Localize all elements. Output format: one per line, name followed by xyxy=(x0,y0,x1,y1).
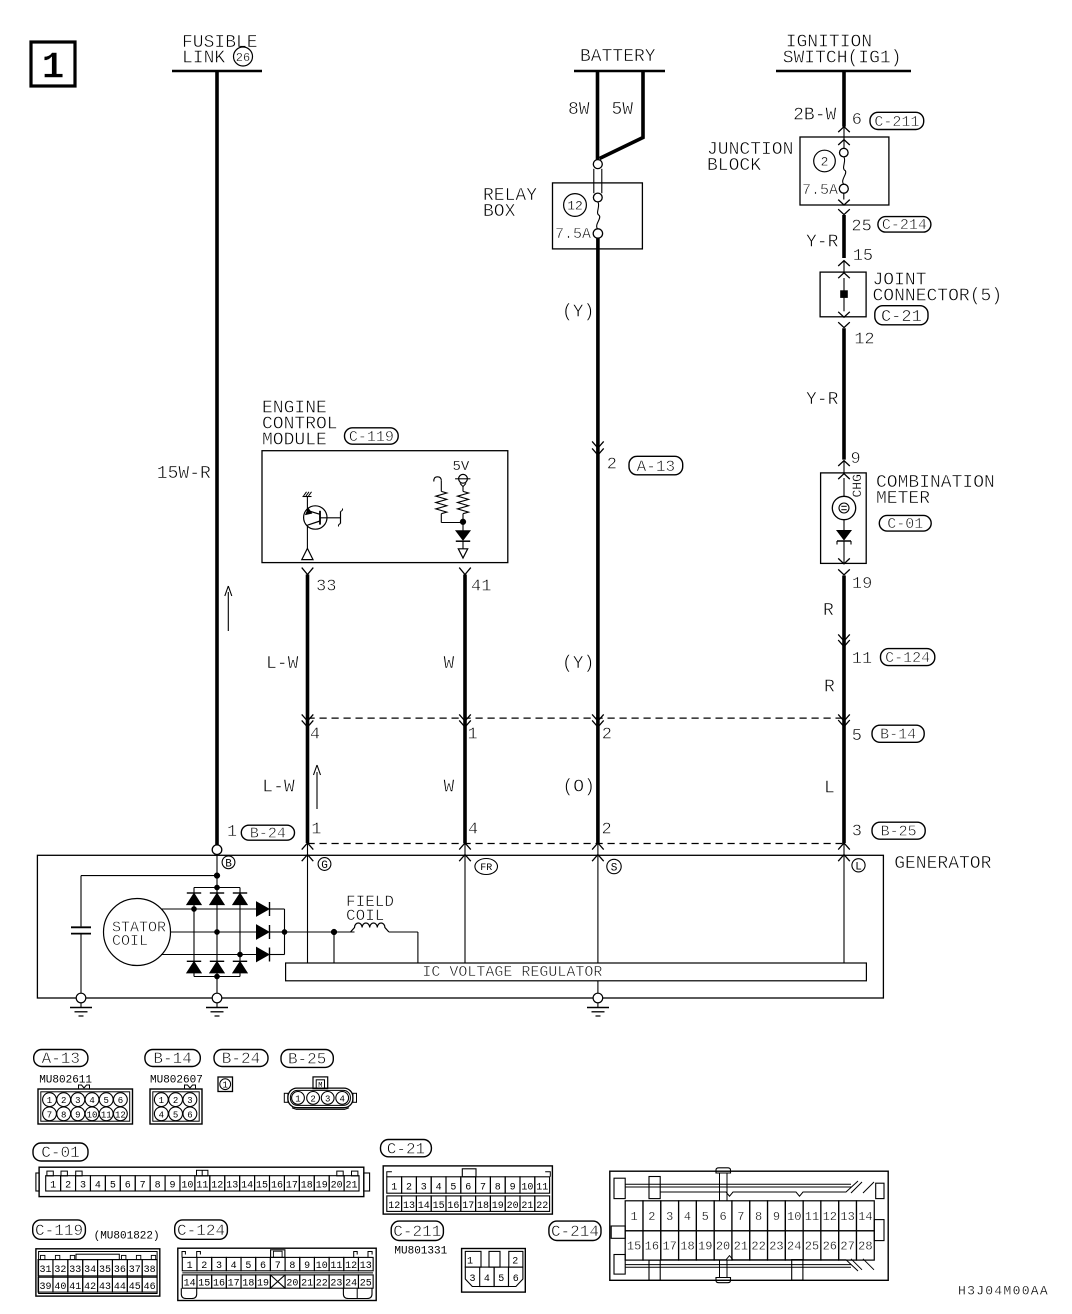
junction block exit chevrons xyxy=(838,200,850,215)
svg-text:7: 7 xyxy=(47,1110,52,1120)
svg-text:C-01: C-01 xyxy=(887,516,923,533)
svg-text:3: 3 xyxy=(469,1274,475,1285)
connector label C-211 (pinout section) xyxy=(391,1221,443,1240)
circled 2 fuse number xyxy=(814,150,836,172)
wire terminal FR to regulator xyxy=(464,843,466,963)
wire branch to voltage regulator xyxy=(333,932,335,963)
svg-text:16: 16 xyxy=(271,1181,283,1192)
svg-text:21: 21 xyxy=(301,1279,313,1290)
svg-text:31: 31 xyxy=(39,1265,51,1276)
svg-text:C-124: C-124 xyxy=(885,650,930,667)
svg-text:34: 34 xyxy=(84,1265,96,1276)
svg-text:33: 33 xyxy=(316,577,336,596)
transistor Q1 emitter lead xyxy=(306,525,308,548)
svg-text:13: 13 xyxy=(226,1181,238,1192)
svg-text:7: 7 xyxy=(275,1261,281,1272)
svg-text:4: 4 xyxy=(310,726,320,745)
rectifier diodes upper row xyxy=(187,893,247,905)
svg-text:CONNECTOR(5): CONNECTOR(5) xyxy=(873,287,1003,307)
stator coil winding circle xyxy=(104,899,171,966)
svg-text:19: 19 xyxy=(492,1201,504,1212)
5V supply circle xyxy=(455,474,470,486)
svg-text:5W: 5W xyxy=(612,100,634,120)
connector label C-124 (pinout section) xyxy=(175,1220,228,1239)
wire R combination meter to generator terminal L xyxy=(842,576,846,844)
svg-text:1: 1 xyxy=(468,726,478,745)
svg-text:C-214: C-214 xyxy=(551,1223,599,1241)
svg-text:37: 37 xyxy=(129,1265,141,1276)
svg-text:C-119: C-119 xyxy=(349,429,394,446)
svg-text:1: 1 xyxy=(42,47,65,90)
svg-text:5: 5 xyxy=(110,1181,116,1192)
svg-text:B-14: B-14 xyxy=(880,727,916,744)
svg-text:4: 4 xyxy=(89,1096,94,1106)
svg-text:W: W xyxy=(444,778,455,798)
connector label B-14 xyxy=(872,725,924,742)
svg-text:METER: METER xyxy=(876,489,930,509)
svg-text:GENERATOR: GENERATOR xyxy=(894,854,991,874)
svg-text:17: 17 xyxy=(228,1279,240,1290)
svg-text:41: 41 xyxy=(471,577,491,596)
wire Y-R joint connector to combination meter xyxy=(842,328,846,459)
connector B-14 latch mark xyxy=(185,1085,196,1089)
svg-text:2B-W: 2B-W xyxy=(793,105,836,125)
svg-text:1: 1 xyxy=(187,1261,193,1272)
svg-text:2: 2 xyxy=(65,1181,71,1192)
svg-text:13: 13 xyxy=(840,1210,854,1224)
flow arrow on 15W-R wire xyxy=(225,586,232,631)
in-line connector A-13 crossing on wire (Y) xyxy=(592,441,604,455)
terminal FR letter xyxy=(475,859,498,875)
wire Y-R junction block to joint connector xyxy=(842,215,846,258)
svg-text:Y-R: Y-R xyxy=(806,390,839,410)
svg-text:16: 16 xyxy=(447,1201,459,1212)
svg-text:CHG: CHG xyxy=(850,474,865,497)
wire capacitor to terminal B xyxy=(81,875,217,877)
joint connector exit chevrons xyxy=(838,312,850,328)
joint connector label xyxy=(873,271,1003,307)
circled 26 fusible link number xyxy=(234,47,253,66)
engine control module outline xyxy=(262,451,508,563)
connector label C-21 xyxy=(875,306,928,325)
svg-text:(O): (O) xyxy=(563,778,595,798)
svg-text:2: 2 xyxy=(201,1261,207,1272)
junction dot bottom rail xyxy=(214,974,219,979)
svg-text:C-119: C-119 xyxy=(35,1222,83,1240)
svg-text:1: 1 xyxy=(391,1182,397,1193)
svg-text:18: 18 xyxy=(242,1279,254,1290)
svg-text:SWITCH(IG1): SWITCH(IG1) xyxy=(783,49,902,69)
svg-text:16: 16 xyxy=(645,1240,659,1254)
svg-text:6: 6 xyxy=(187,1110,192,1120)
svg-text:2: 2 xyxy=(173,1096,178,1106)
svg-text:7.5A: 7.5A xyxy=(802,182,838,199)
svg-text:13: 13 xyxy=(403,1201,415,1212)
fuse 2 symbol (7.5A) in junction block xyxy=(839,148,848,199)
in-line connector C-124 crossing xyxy=(838,634,850,646)
svg-text:1: 1 xyxy=(159,1096,164,1106)
svg-text:16: 16 xyxy=(213,1279,225,1290)
svg-text:25: 25 xyxy=(360,1279,372,1290)
ignition switch label xyxy=(783,32,902,68)
svg-text:A-13: A-13 xyxy=(637,458,675,476)
connector B-25 lock tab xyxy=(313,1077,328,1090)
svg-text:12: 12 xyxy=(854,331,874,350)
wire (Y) relay box to generator terminal S xyxy=(596,238,600,843)
svg-text:3: 3 xyxy=(75,1096,80,1106)
svg-text:9: 9 xyxy=(773,1210,780,1224)
open triangle terminal above pin 41 xyxy=(458,549,467,558)
ECM pin 41 exit chevron xyxy=(459,568,471,575)
svg-text:C-214: C-214 xyxy=(882,217,927,234)
svg-text:(MU801822): (MU801822) xyxy=(94,1231,160,1243)
svg-text:2: 2 xyxy=(821,155,829,170)
svg-text:10: 10 xyxy=(181,1181,193,1192)
stator phase lines to rectifier xyxy=(161,909,257,955)
ground at voltage regulator xyxy=(587,981,609,1016)
svg-text:18: 18 xyxy=(301,1181,313,1192)
wire field coil to regulator xyxy=(389,932,418,963)
svg-text:COIL: COIL xyxy=(112,933,148,950)
svg-text:17: 17 xyxy=(286,1181,298,1192)
svg-text:8: 8 xyxy=(289,1261,295,1272)
wire terminal G to regulator xyxy=(307,843,309,963)
svg-text:1: 1 xyxy=(47,1096,52,1106)
connector label C-211 xyxy=(870,112,924,129)
svg-text:36: 36 xyxy=(114,1265,126,1276)
svg-text:27: 27 xyxy=(840,1240,854,1254)
svg-text:11: 11 xyxy=(536,1182,548,1193)
svg-text:7: 7 xyxy=(140,1181,146,1192)
wire terminal L to regulator xyxy=(843,843,845,963)
rectifier diodes lower row xyxy=(187,961,247,973)
wire S crossing chevrons at row B-14 xyxy=(592,714,604,727)
svg-text:10: 10 xyxy=(316,1261,328,1272)
ground at stator capacitor xyxy=(70,993,92,1016)
field coil inductor winding xyxy=(351,923,389,932)
fusible link bus bar xyxy=(172,70,262,73)
joint connector internal wire xyxy=(843,278,845,311)
svg-text:10: 10 xyxy=(521,1182,533,1193)
in-line connector B-14 crossing xyxy=(838,714,850,726)
svg-text:BLOCK: BLOCK xyxy=(707,156,761,176)
connector C-124 pinout xyxy=(178,1248,376,1300)
connector label A-13 (pinout section) xyxy=(34,1050,88,1067)
generator terminal G entry chevrons xyxy=(302,843,314,861)
connector C-21 pinout xyxy=(383,1166,552,1214)
wire G crossing chevrons at row B-14 xyxy=(302,714,314,727)
transistor Q1 base lead with stub xyxy=(320,509,343,527)
wire W ECM pin 41 to generator terminal FR xyxy=(463,575,467,844)
page number box 1 xyxy=(31,42,75,90)
connector A-13 latch mark xyxy=(79,1085,90,1089)
svg-text:9: 9 xyxy=(75,1110,80,1120)
svg-text:8: 8 xyxy=(755,1210,762,1224)
connector label B-24 xyxy=(241,825,294,840)
svg-text:3: 3 xyxy=(325,1095,330,1105)
field diode output bus xyxy=(284,909,286,955)
svg-text:S: S xyxy=(611,863,618,875)
svg-text:12: 12 xyxy=(567,199,583,214)
ground at rectifier xyxy=(206,993,228,1016)
terminal L letter xyxy=(852,859,865,874)
junction dots on phase lines xyxy=(191,906,242,957)
svg-text:4: 4 xyxy=(484,1274,490,1285)
connector label C-21 (pinout section) xyxy=(381,1140,432,1157)
combination meter exit chevrons xyxy=(838,558,850,574)
svg-text:22: 22 xyxy=(536,1201,548,1212)
svg-text:24: 24 xyxy=(345,1279,357,1290)
svg-text:11: 11 xyxy=(196,1181,208,1192)
terminal S letter xyxy=(607,859,621,874)
svg-text:3: 3 xyxy=(421,1182,427,1193)
svg-text:5: 5 xyxy=(173,1110,178,1120)
junction dot field coil branch xyxy=(331,929,337,935)
svg-text:C-21: C-21 xyxy=(881,308,922,327)
svg-text:MU802611: MU802611 xyxy=(39,1075,92,1087)
connector C-211 crossing chevrons xyxy=(838,127,850,148)
svg-text:B-24: B-24 xyxy=(222,1050,260,1068)
fusible link label xyxy=(182,33,258,69)
svg-text:23: 23 xyxy=(769,1240,783,1254)
svg-text:11: 11 xyxy=(852,650,872,669)
svg-text:R: R xyxy=(824,678,835,698)
svg-text:13: 13 xyxy=(360,1261,372,1272)
svg-text:C-124: C-124 xyxy=(177,1222,225,1240)
connector B-25 pinout xyxy=(284,1088,356,1109)
svg-text:C-211: C-211 xyxy=(393,1223,441,1241)
svg-text:3: 3 xyxy=(852,823,862,842)
svg-text:(Y): (Y) xyxy=(562,654,594,674)
svg-text:7: 7 xyxy=(480,1182,486,1193)
connector B-14 pinout xyxy=(150,1089,202,1124)
svg-text:3: 3 xyxy=(666,1210,673,1224)
svg-text:MU801331: MU801331 xyxy=(394,1245,447,1257)
wire 5W from battery xyxy=(600,71,644,159)
connector C-214 pinout xyxy=(610,1168,888,1283)
svg-text:12: 12 xyxy=(115,1110,126,1120)
svg-text:9: 9 xyxy=(851,450,861,469)
generator terminal L entry chevrons xyxy=(838,843,850,861)
svg-text:3: 3 xyxy=(187,1096,192,1106)
svg-text:7.5A: 7.5A xyxy=(555,226,591,243)
svg-text:8W: 8W xyxy=(568,100,590,120)
combination meter outline xyxy=(821,473,867,564)
svg-text:41: 41 xyxy=(69,1282,81,1293)
svg-text:22: 22 xyxy=(316,1279,328,1290)
svg-text:IC VOLTAGE REGULATOR: IC VOLTAGE REGULATOR xyxy=(422,964,602,981)
svg-text:9: 9 xyxy=(304,1261,310,1272)
wire terminal B down through rectifier xyxy=(216,854,218,998)
svg-text:22: 22 xyxy=(751,1240,765,1254)
charge warning lamp symbol xyxy=(832,496,855,519)
svg-text:19: 19 xyxy=(257,1279,269,1290)
junction block outline xyxy=(800,137,889,205)
svg-text:12: 12 xyxy=(388,1201,400,1212)
svg-text:33: 33 xyxy=(69,1265,81,1276)
svg-text:26: 26 xyxy=(236,51,250,65)
diode in combination meter xyxy=(837,531,851,545)
generator terminal FR entry chevrons xyxy=(459,843,471,861)
svg-text:4: 4 xyxy=(159,1110,164,1120)
connector C-119 pinout xyxy=(36,1249,160,1296)
svg-text:25: 25 xyxy=(805,1240,819,1254)
svg-text:1: 1 xyxy=(630,1210,637,1224)
svg-text:12: 12 xyxy=(823,1210,837,1224)
svg-text:32: 32 xyxy=(54,1265,66,1276)
svg-text:14: 14 xyxy=(241,1181,253,1192)
svg-text:FR: FR xyxy=(480,863,492,874)
svg-text:12: 12 xyxy=(211,1181,223,1192)
diode in ECM xyxy=(456,525,470,549)
junction dot on output bus xyxy=(282,929,287,934)
svg-text:11: 11 xyxy=(101,1110,112,1120)
svg-text:28: 28 xyxy=(858,1240,872,1254)
svg-text:2: 2 xyxy=(602,821,612,840)
svg-text:45: 45 xyxy=(129,1282,141,1293)
svg-text:2: 2 xyxy=(310,1095,315,1105)
svg-text:26: 26 xyxy=(823,1240,837,1254)
svg-text:1: 1 xyxy=(311,821,321,840)
svg-text:39: 39 xyxy=(39,1282,51,1293)
wire terminal S to regulator xyxy=(597,843,599,963)
svg-text:4: 4 xyxy=(468,821,478,840)
svg-text:4: 4 xyxy=(684,1210,691,1224)
joint connector entry chevrons xyxy=(838,261,850,279)
svg-text:8: 8 xyxy=(155,1181,161,1192)
svg-text:19: 19 xyxy=(852,575,872,594)
circled 12 fuse number xyxy=(564,194,587,217)
resistor R1 (left) with hook terminal xyxy=(434,477,463,523)
svg-text:L: L xyxy=(855,861,862,873)
svg-text:20: 20 xyxy=(286,1279,298,1290)
dashed connector row B-14 (upper) xyxy=(308,717,845,719)
capacitor xyxy=(71,876,91,998)
svg-text:3: 3 xyxy=(216,1261,222,1272)
svg-text:1: 1 xyxy=(227,823,237,842)
combination meter label xyxy=(876,473,995,509)
svg-text:14: 14 xyxy=(418,1201,430,1212)
svg-text:COIL: COIL xyxy=(346,907,384,925)
svg-text:14: 14 xyxy=(184,1279,196,1290)
terminal B bolt circle xyxy=(212,845,222,855)
transistor Q1 collector lead xyxy=(306,497,308,512)
svg-text:2: 2 xyxy=(602,726,612,745)
svg-text:38: 38 xyxy=(144,1265,156,1276)
svg-text:1: 1 xyxy=(467,1257,473,1268)
connector label B-25 xyxy=(872,822,925,839)
connector C-01 pinout xyxy=(36,1167,370,1196)
svg-text:2: 2 xyxy=(512,1257,518,1268)
resistor R2 (right, from 5V) xyxy=(458,487,469,520)
terminal B letter xyxy=(222,856,235,870)
svg-text:A-13: A-13 xyxy=(42,1050,80,1068)
field supply diodes (horizontal) xyxy=(257,902,285,962)
svg-text:18: 18 xyxy=(680,1240,694,1254)
svg-text:15: 15 xyxy=(627,1240,641,1254)
svg-text:9: 9 xyxy=(170,1181,176,1192)
svg-text:11: 11 xyxy=(330,1261,342,1272)
svg-text:40: 40 xyxy=(54,1282,66,1293)
connector label C-119 (pinout section) xyxy=(33,1220,86,1239)
svg-text:6: 6 xyxy=(719,1210,726,1224)
engine control module label xyxy=(262,399,338,451)
open triangle terminal above pin 33 xyxy=(302,548,313,559)
connector label C-01 (pinout section) xyxy=(33,1143,88,1161)
svg-text:15: 15 xyxy=(433,1201,445,1212)
wire 15W-R fusible link to generator terminal B xyxy=(215,72,219,845)
battery bus bar xyxy=(574,70,665,73)
wire 8W from battery xyxy=(596,71,600,160)
svg-text:4: 4 xyxy=(231,1261,237,1272)
svg-text:LINK: LINK xyxy=(182,49,225,69)
svg-text:6: 6 xyxy=(465,1182,471,1193)
svg-text:5: 5 xyxy=(852,727,862,746)
IC voltage regulator box xyxy=(286,963,867,981)
svg-text:B: B xyxy=(225,858,232,870)
svg-text:6: 6 xyxy=(118,1096,123,1106)
svg-text:3: 3 xyxy=(80,1181,86,1192)
svg-text:25: 25 xyxy=(851,217,871,236)
svg-text:R: R xyxy=(823,601,834,621)
svg-text:17: 17 xyxy=(462,1201,474,1212)
connector B-24 pinout (single terminal) xyxy=(218,1077,233,1092)
svg-text:46: 46 xyxy=(144,1282,156,1293)
svg-text:4: 4 xyxy=(95,1181,101,1192)
joint connector outline xyxy=(820,272,866,317)
junction dot at terminal B branch xyxy=(214,873,220,879)
svg-text:5: 5 xyxy=(702,1210,709,1224)
connector label A-13 xyxy=(629,456,683,475)
svg-text:4: 4 xyxy=(339,1095,344,1105)
svg-text:9: 9 xyxy=(510,1182,516,1193)
svg-text:5: 5 xyxy=(450,1182,456,1193)
svg-text:20: 20 xyxy=(507,1201,519,1212)
fuse 12 symbol (7.5A) in relay box xyxy=(593,160,602,239)
svg-text:15W-R: 15W-R xyxy=(157,464,211,484)
svg-text:15: 15 xyxy=(853,247,873,266)
transistor Q1 xyxy=(304,506,327,529)
svg-text:6: 6 xyxy=(852,111,862,130)
svg-text:H3J04M00AA: H3J04M00AA xyxy=(958,1284,1049,1299)
svg-text:20: 20 xyxy=(716,1240,730,1254)
svg-text:19: 19 xyxy=(316,1181,328,1192)
svg-text:35: 35 xyxy=(99,1265,111,1276)
svg-text:5: 5 xyxy=(498,1274,504,1285)
connector label B-25 (pinout section) xyxy=(281,1050,333,1068)
svg-text:21: 21 xyxy=(734,1240,748,1254)
svg-text:7: 7 xyxy=(737,1210,744,1224)
svg-text:15: 15 xyxy=(256,1181,268,1192)
junction node dot in ECM xyxy=(460,519,466,525)
svg-text:B-24: B-24 xyxy=(250,826,286,843)
transistor Q1 internal ground hatch xyxy=(303,492,312,497)
connector label B-24 (pinout section) xyxy=(214,1050,268,1067)
wire L-W ECM pin 33 to generator terminal G xyxy=(306,575,310,844)
flow arrow on wire L-W xyxy=(314,765,321,809)
svg-text:MODULE: MODULE xyxy=(262,430,327,450)
connector label B-14 (pinout section) xyxy=(145,1050,200,1067)
svg-text:1: 1 xyxy=(222,1081,227,1091)
svg-text:1: 1 xyxy=(50,1181,56,1192)
joint connector node (solid square) xyxy=(841,291,848,298)
field coil label xyxy=(346,893,394,925)
svg-text:15: 15 xyxy=(198,1279,210,1290)
svg-text:C-211: C-211 xyxy=(874,114,919,131)
svg-text:L: L xyxy=(824,779,835,799)
svg-text:2: 2 xyxy=(61,1096,66,1106)
connector label C-214 xyxy=(878,217,931,233)
